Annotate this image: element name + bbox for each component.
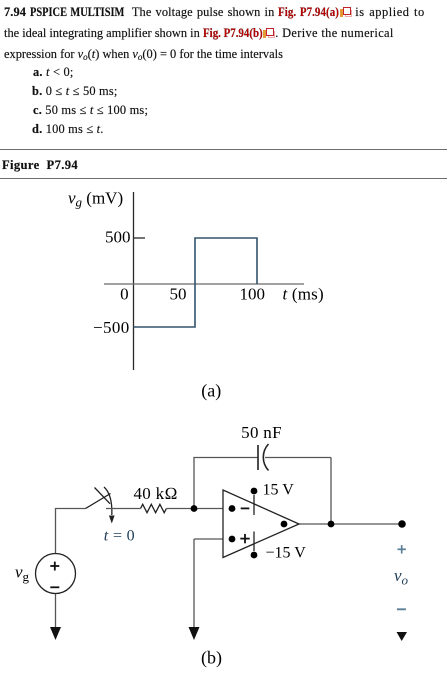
switch arrowhead (109, 516, 115, 524)
op-amp triangle (223, 490, 299, 558)
tick +500 (134, 237, 146, 239)
svg-text:vg (mV): vg (mV) (68, 189, 123, 210)
wire: resistor to inverting node (166, 508, 194, 510)
svg-text:(a): (a) (201, 381, 221, 402)
x-axis (104, 283, 304, 285)
source minus (50, 586, 59, 588)
source vg circle (36, 554, 76, 594)
op-amp plus sign (240, 538, 249, 540)
wire: source bottom to ground arrow (55, 594, 57, 629)
resistor 40 kOhm zigzag (141, 504, 167, 512)
problem text (4, 5, 425, 20)
switch cross tick (95, 488, 111, 504)
ground arrowhead (source) (50, 627, 61, 640)
capacitor C 50nF curved plate (263, 444, 268, 471)
op-amp minus sign (241, 507, 250, 509)
svg-text:−15 V: −15 V (266, 545, 307, 562)
node dot: inverting input (191, 505, 198, 512)
wire: feedback down to output (330, 458, 332, 525)
svg-text:vg: vg (15, 563, 30, 585)
wire: noninverting down to ground arrow (193, 539, 195, 628)
supply -15V pin line (253, 532, 255, 552)
pin dot: inverting input (229, 505, 236, 512)
ground arrowhead (noninverting) (189, 627, 200, 640)
output plus label (398, 548, 406, 550)
svg-text:−500: −500 (93, 318, 130, 337)
wire: source top to switch (56, 509, 86, 554)
pin dot: noninverting input (229, 536, 236, 543)
svg-text:15 V: 15 V (263, 482, 295, 499)
svg-text:50 nF: 50 nF (241, 423, 282, 442)
svg-text:50: 50 (170, 285, 187, 304)
switch closing arc (104, 487, 112, 515)
wire: inverting node to op-amp (194, 508, 223, 510)
svg-text:vo: vo (394, 566, 409, 588)
svg-text:500: 500 (105, 228, 131, 247)
output terminal dot (398, 520, 406, 528)
supply -15V dot (251, 552, 258, 559)
wire: switch to resistor (106, 508, 141, 510)
output minus label (397, 608, 406, 610)
waveform vg pulse (134, 238, 258, 327)
svg-text:t (ms): t (ms) (283, 285, 324, 304)
svg-text:(b): (b) (201, 648, 222, 669)
output ground marker (397, 632, 408, 641)
node dot: feedback/output junction (328, 521, 335, 528)
wire: op-amp output (299, 523, 402, 525)
svg-text:0: 0 (120, 285, 129, 304)
pin dot: output (281, 521, 288, 528)
source plus (50, 565, 59, 567)
switch blade (86, 494, 111, 509)
supply +15V dot (251, 488, 258, 495)
rules around Figure label (0, 149, 447, 150)
capacitor C 50nF left plate (257, 445, 259, 470)
y-axis (133, 192, 135, 370)
svg-text:40 kΩ: 40 kΩ (134, 484, 178, 503)
wire: noninverting input (194, 538, 223, 540)
svg-text:100: 100 (240, 285, 266, 304)
svg-text:t = 0: t = 0 (104, 528, 135, 545)
wire: feedback up from inverting node (194, 458, 258, 509)
capacitor right wire (265, 457, 331, 459)
supply +15V pin line (253, 495, 255, 515)
